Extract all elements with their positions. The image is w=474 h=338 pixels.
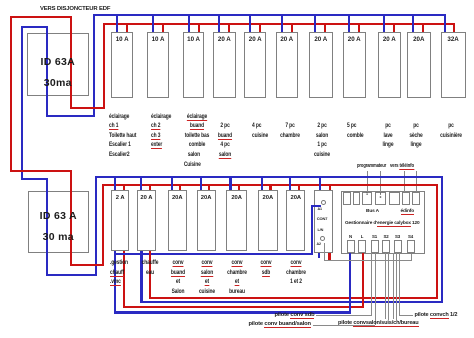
wire blue drop D10 (412, 14, 414, 32)
wire lower red bus (102, 184, 437, 186)
wire blue drop D4 (218, 14, 220, 32)
wire lower blue bus left riser (95, 176, 97, 276)
label column c6 7pc chambre (272, 121, 308, 140)
wire bottom red run to L (123, 306, 364, 308)
label terminal S4 (406, 234, 416, 239)
wire blue drop D2 (152, 14, 154, 32)
circuit breaker top row D11 32A (441, 32, 466, 99)
label column l1 gestion chauff vmc (110, 258, 128, 287)
label L/N (318, 228, 324, 232)
wire lower red bus left riser (102, 184, 104, 266)
label ID 63A (27, 56, 90, 68)
label column l7 conv chambre 1et2 (278, 258, 314, 287)
label pilote convsalon suis ch bureau (338, 320, 419, 326)
wire red to ID2 horizontal (10, 170, 72, 172)
wire pilot S3a vertical (393, 253, 394, 319)
circuit breaker top row D10 20A (407, 32, 431, 99)
label terminal S1 (370, 234, 380, 239)
wire red drop DL1 (123, 184, 125, 190)
gestionnaire top terminal T2 (353, 192, 361, 206)
wire red drop D9 (393, 23, 395, 32)
label column l5 conv chambre (219, 258, 255, 296)
label edinfo (401, 209, 415, 214)
wire L1 red output vertical (123, 251, 125, 309)
circuit breaker top row D9 20A (378, 32, 401, 99)
wire pilot S2a vertical (385, 253, 386, 319)
circuit breaker top row D8 20A (343, 32, 366, 99)
wire blue drop D7 (314, 14, 316, 32)
wire pilot S1a vertical (371, 253, 372, 315)
label column l6 conv sdb (248, 258, 284, 277)
wire blue drop DL1 (114, 176, 116, 190)
wire blue drop D3 (188, 14, 190, 32)
gestionnaire bottom terminal S2 (382, 240, 391, 253)
wire A1 blue riser (311, 205, 313, 255)
gestionnaire bottom terminal L (358, 240, 366, 253)
wire L2 red output vertical (149, 251, 151, 299)
label column c9 pc lave linge (370, 121, 406, 150)
wire A2 riser to S4 (411, 254, 412, 262)
label pilote convch 1 2 (415, 312, 458, 318)
label column c2 eclairage ch2 (151, 112, 171, 150)
wire red ID2 output (70, 264, 105, 266)
wire blue ID2 output (46, 274, 97, 276)
contactor terminal A2 circle (320, 236, 326, 242)
wire pilot S4a vertical (399, 253, 400, 315)
gestionnaire top terminal T4 (375, 192, 386, 206)
circuit breaker top row D1 10A (111, 32, 134, 99)
wire top red bus left riser (103, 23, 105, 109)
wire top red bus (103, 23, 454, 25)
wire red drop D8 (358, 23, 360, 32)
wire red drop D5 (259, 23, 261, 32)
wire blue through ID2 (46, 178, 48, 276)
label CONT (317, 216, 328, 221)
wire red through ID2 (70, 170, 72, 266)
wire N blue riser (349, 253, 351, 313)
circuit breaker lower row DL4 20A (197, 190, 216, 251)
wire pilot buand-salon leader (313, 325, 375, 326)
wire red drop DL7 (298, 184, 300, 190)
wire A2 horizontal (324, 260, 412, 261)
wire contactor blue stub (318, 253, 320, 259)
differential switch ID2 ID 63 A 30 ma (28, 191, 89, 253)
label vers teleinfo (390, 163, 414, 169)
wire red drop D10 (422, 23, 424, 32)
contactor terminal A1 circle (321, 200, 327, 206)
wire contactor red stub (328, 253, 330, 260)
wire pilot sdb leader (316, 315, 372, 316)
label terminal S3 (393, 234, 403, 239)
wire A2 vertical (324, 243, 325, 261)
gestionnaire top terminal T6 (402, 192, 410, 206)
gestionnaire bottom terminal S1 (371, 240, 379, 253)
circuit breaker top row D2 10A (147, 32, 170, 99)
wire L red riser (362, 253, 364, 308)
wire bottom blue run chauffe-eau (140, 301, 443, 303)
wire red drop contactor (329, 184, 331, 190)
wire red drop D4 (228, 23, 230, 32)
energy manager U1 Gestionnaire calybox 120 (341, 191, 425, 255)
gestionnaire top terminal T7 (412, 192, 420, 206)
wire red drop D11 (453, 23, 455, 32)
label VERS DISJONCTEUR EDF (40, 6, 110, 12)
gestionnaire bottom terminal N (347, 240, 355, 253)
wire L2 blue output vertical (140, 251, 142, 304)
label pilote conv buand salon (249, 321, 311, 327)
circuit breaker top row D7 20A (309, 32, 333, 99)
label column c1 eclairage ch1 (109, 112, 136, 160)
label column c8 5pc comble (347, 121, 364, 140)
wire blue drop DL7 (289, 176, 291, 190)
wire red drop D1 (126, 23, 128, 32)
circuit breaker top row D3 10A (183, 32, 205, 99)
wire top blue bus (93, 14, 446, 16)
circuit breaker lower row DL7 20A (286, 190, 305, 251)
label column c4 2pc buand (207, 121, 243, 159)
wire pilot S1b vertical (375, 253, 376, 325)
circuit breaker lower row DL1 2A (111, 190, 129, 251)
wire red drop D2 (162, 23, 164, 32)
wire EDF red horizontal (10, 16, 72, 18)
wire EDF blue left vertical (21, 26, 23, 181)
label terminal L (357, 234, 367, 239)
label column c7 2pc salon (304, 121, 340, 159)
label 30ma (27, 77, 90, 89)
wire A1 blue horizontal low (114, 253, 313, 255)
label column c3 eclairage buand (179, 112, 215, 169)
label 30 ma (28, 231, 89, 243)
wire teleinfo 2 (416, 171, 417, 192)
gestionnaire top terminal T3 (362, 192, 372, 206)
wire red drop D3 (198, 23, 200, 32)
wire bottom red run chauffe-eau (149, 297, 438, 299)
label A1 (318, 207, 322, 211)
circuit breaker lower row DL2 20A (137, 190, 155, 251)
circuit breaker lower row DL6 20A (258, 190, 278, 251)
label Gestionnaire d'energie calybox 120 (345, 221, 420, 226)
wire red drop D7 (324, 23, 326, 32)
wire red through ID1 (70, 16, 72, 109)
differential switch ID1 ID 63A 30ma (27, 33, 90, 96)
wire blue drop D11 (444, 14, 446, 32)
wire blue drop D1 (116, 14, 118, 32)
wire red drop DL3 (179, 184, 181, 190)
wire programmateur 1 (367, 171, 368, 192)
label programmateur (357, 163, 386, 169)
gestionnaire top terminal T5 (389, 192, 400, 206)
wire blue to ID2 horizontal (21, 178, 48, 180)
label Bus A (366, 209, 379, 214)
wire blue through ID1 (46, 26, 48, 117)
circuit breaker lower row DL5 20A (226, 190, 247, 251)
wire bottom blue run to N (114, 311, 351, 313)
label column c10 pc seche linge (398, 121, 434, 150)
label column c5 4pc cuisine (252, 121, 268, 140)
wire red drop DL5 (238, 184, 240, 190)
gestionnaire bottom terminal S3 (394, 240, 402, 253)
label column c11 pc cuisiniere (433, 121, 469, 140)
label terminal S2 (381, 234, 391, 239)
wire blue drop contactor (319, 176, 321, 190)
label column l4 conv salon (189, 258, 225, 296)
wire blue drop DL2 (140, 176, 142, 190)
label pilote conv sdb (275, 312, 315, 318)
wire blue drop DL4 (200, 176, 202, 190)
wire blue drop D5 (249, 14, 251, 32)
wire pilot S3b vertical (396, 253, 397, 320)
wire blue drop D6 (281, 14, 283, 32)
label terminal N (346, 234, 356, 239)
wire blue ID1 output (46, 115, 96, 117)
label column l2 chauffe eau (132, 258, 168, 277)
gestionnaire bottom terminal S4 (407, 240, 415, 253)
gestionnaire top terminal T1 (343, 192, 351, 206)
wire lower blue bus right riser (441, 176, 443, 303)
label A2 (317, 242, 321, 246)
wire blue drop DL6 (261, 176, 263, 190)
wire lower red bus right riser (436, 184, 438, 299)
wire red ID1 output (70, 107, 106, 109)
wire blue drop D9 (383, 14, 385, 32)
wire top blue bus left riser (93, 14, 95, 117)
contactor K1 CONT (314, 190, 333, 253)
circuit breaker top row D6 20A (276, 32, 298, 99)
wire EDF blue horizontal (21, 26, 48, 28)
circuit breaker top row D5 20A (244, 32, 266, 99)
circuit breaker top row D4 20A (213, 32, 236, 99)
label column l3 conv buand (160, 258, 196, 296)
wire lower blue bus (95, 176, 443, 178)
wire programmateur 2 (380, 171, 381, 192)
circuit breaker lower row DL3 20A (168, 190, 187, 251)
wire A1 blue into contactor (311, 205, 321, 207)
wire red drop DL4 (208, 184, 210, 190)
wire red drop DL2 (149, 184, 151, 190)
wire L1 blue output vertical (114, 251, 116, 314)
wire teleinfo 1 (404, 171, 405, 192)
wire red drop D6 (291, 23, 293, 32)
label ID 63 A (28, 210, 89, 222)
wire pilot convch leader (399, 315, 413, 316)
wire red drop DL6 (269, 184, 271, 190)
wire EDF red left vertical (10, 16, 12, 171)
wire pilot S2b vertical (388, 253, 389, 320)
wire blue drop DL5 (229, 176, 231, 190)
wire blue drop DL3 (171, 176, 173, 190)
wire blue drop D8 (348, 14, 350, 32)
